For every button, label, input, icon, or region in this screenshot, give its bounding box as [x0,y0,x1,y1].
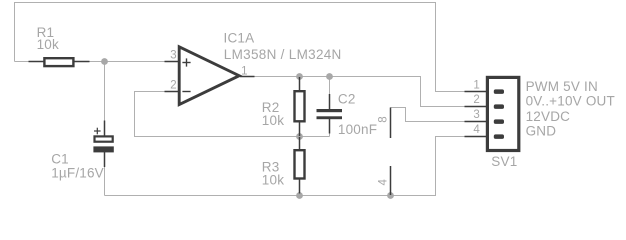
svg-text:0V..+10V OUT: 0V..+10V OUT [526,94,615,109]
svg-text:2: 2 [170,80,176,92]
svg-text:C1: C1 [51,152,69,167]
svg-text:1: 1 [473,80,479,92]
svg-text:GND: GND [526,123,557,138]
svg-text:4: 4 [473,124,480,136]
svg-text:1µF/16V: 1µF/16V [51,166,104,181]
svg-text:12VDC: 12VDC [526,109,571,124]
svg-text:4: 4 [377,179,389,186]
svg-text:2: 2 [473,94,479,106]
svg-text:10k: 10k [262,113,284,128]
svg-text:SV1: SV1 [491,154,517,169]
svg-text:IC1A: IC1A [224,31,255,46]
svg-text:3: 3 [473,109,479,121]
svg-text:C2: C2 [338,92,356,107]
svg-text:3: 3 [170,50,176,62]
svg-text:LM358N / LM324N: LM358N / LM324N [224,47,342,62]
svg-text:1: 1 [241,66,247,78]
svg-text:100nF: 100nF [338,122,377,137]
svg-text:10k: 10k [262,173,284,188]
svg-text:10k: 10k [37,37,59,52]
svg-text:PWM 5V IN: PWM 5V IN [526,79,598,94]
svg-text:8: 8 [378,116,390,122]
